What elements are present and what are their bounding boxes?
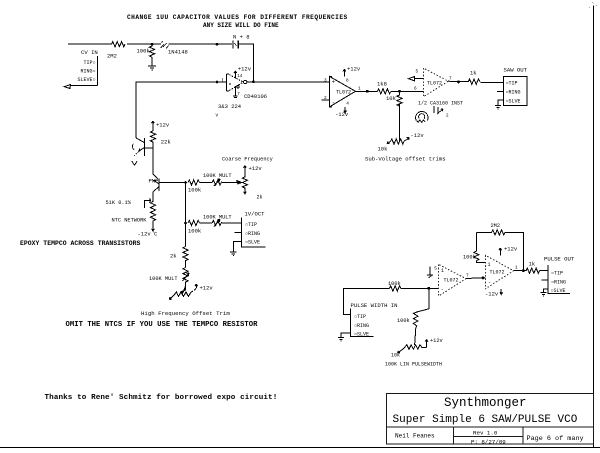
resistor R10 2k (183, 247, 188, 263)
resistor R4 10k offset (397, 91, 402, 106)
wire Q2 base to summing node (159, 182, 186, 184)
svg-text:100k: 100k (397, 318, 410, 324)
wire summing node down to 1V/OCT chain (185, 183, 187, 247)
svg-text:-12v: -12v (411, 132, 425, 139)
ground at J4 sleeve (338, 338, 344, 342)
resistor R6 22k (150, 127, 155, 144)
svg-text:CHANGE 1UU CAPACITOR VALUES FO: CHANGE 1UU CAPACITOR VALUES FOR DIFFEREN… (127, 14, 348, 21)
svg-text:100K MULT: 100K MULT (203, 173, 232, 179)
wire NPN collector to U1 input (136, 82, 227, 138)
wire from CV IN to R1 (68, 43, 112, 45)
wire R4 to trimmer RV1 (399, 104, 401, 142)
svg-text:7: 7 (449, 77, 452, 82)
U1 supply pin 14 +12v (234, 66, 252, 80)
svg-text:○RING: ○RING (551, 279, 566, 285)
resistor R5 1k saw out (468, 79, 480, 84)
node junction on saw out line (457, 81, 460, 84)
transistor Q2 PNP (149, 177, 159, 196)
connector J3 1V/OCT jack (242, 211, 266, 248)
svg-text:-: - (488, 280, 491, 286)
svg-text:○SLVE: ○SLVE (245, 240, 260, 246)
J5 sleeve wire to ground (544, 289, 548, 293)
svg-text:2M2: 2M2 (491, 223, 501, 229)
node junction at U4 -input (427, 287, 430, 290)
svg-text:CD40106: CD40106 (244, 93, 267, 100)
svg-text:ANY SIZE WILL DO FINE: ANY SIZE WILL DO FINE (203, 22, 279, 29)
svg-text:-12v: -12v (335, 111, 349, 118)
svg-text:6: 6 (414, 87, 417, 92)
svg-text:○RING: ○RING (245, 231, 260, 237)
resistor R7 NTC/tempco (150, 196, 155, 226)
svg-text:○TIP: ○TIP (354, 314, 366, 320)
+12v supply arrow above R6 (152, 121, 155, 127)
node junction on saw line (366, 90, 369, 93)
node junction at R2 top (151, 43, 154, 46)
svg-text:+12v: +12v (238, 66, 252, 73)
wire R5 to SAW OUT jack (480, 82, 503, 84)
U2 -12v supply pin 4 (335, 102, 349, 119)
J2 ring stub (497, 90, 504, 92)
svg-text:Synthmonger: Synthmonger (444, 396, 527, 410)
svg-text:2k: 2k (170, 253, 177, 260)
svg-text:4: 4 (346, 102, 349, 107)
svg-text:-: - (441, 287, 444, 293)
svg-text:TL072: TL072 (427, 81, 442, 87)
node junction at offset trim branch (398, 90, 401, 93)
svg-text:100k: 100k (388, 281, 401, 287)
svg-text:○SLVE: ○SLVE (506, 98, 521, 104)
svg-text:100k: 100k (188, 228, 202, 235)
wire Q1 base to Q2 base (145, 148, 158, 179)
svg-text:+12v: +12v (504, 246, 518, 253)
svg-text:○TIP: ○TIP (551, 271, 563, 277)
svg-text:○RING: ○RING (506, 90, 521, 96)
trimmer arcs below U3 (416, 111, 428, 120)
svg-text:○TIP: ○TIP (506, 81, 518, 87)
trimmer RV3 100K MULT (212, 220, 222, 227)
svg-text:PULSE OUT: PULSE OUT (544, 256, 575, 263)
svg-text:1: 1 (358, 87, 361, 92)
wire R9 to RV3 (200, 222, 213, 224)
resistor R1 2M2 (112, 42, 125, 47)
svg-text:5: 5 (416, 70, 419, 75)
resistor R8 100k (188, 180, 199, 185)
resistor R2 100k to ground (149, 44, 154, 60)
wire U1 output to U2 +input (247, 81, 330, 83)
node junction at U5 -input (482, 277, 485, 280)
ground at U4 +input (427, 267, 433, 278)
svg-text:SLEVE○: SLEVE○ (77, 77, 95, 83)
svg-text:N + 8: N + 8 (233, 34, 250, 41)
wire R3 to U3 -input (391, 90, 424, 92)
ground at J3 sleeve (230, 252, 236, 256)
pot VR1 coarse frequency (236, 165, 263, 201)
svg-text:○RING: ○RING (354, 323, 369, 329)
svg-text:High Frequency Offset Trim: High Frequency Offset Trim (141, 310, 230, 317)
svg-text:○SLVE: ○SLVE (354, 332, 369, 338)
svg-text:Page 6 of many: Page 6 of many (527, 435, 584, 443)
svg-text:V: V (216, 113, 219, 119)
wire U3 output to R5 (448, 80, 468, 83)
resistor R15 1k pulse out (526, 268, 540, 273)
port arrow at J1 sleeve (64, 85, 75, 89)
svg-text:1: 1 (441, 268, 444, 274)
port arrow at U3 +input (409, 77, 424, 81)
op-amp U2 TL072 saw buffer (324, 77, 361, 107)
trimmer RV4 100K MULT high freq (183, 268, 190, 287)
resistor R9 100k (1V/OCT input) (188, 220, 199, 225)
resistor R11 100k pw input (389, 286, 401, 291)
node junction at feedback tap (522, 269, 525, 272)
wire node down to R12 (417, 288, 429, 312)
svg-text:10k: 10k (378, 146, 389, 153)
wire RV3 to 1V/OCT jack tip (222, 222, 241, 224)
svg-text:1k8: 1k8 (377, 81, 387, 88)
sheet border bottom edge (0, 447, 600, 449)
NTC bracket wiper (144, 198, 150, 208)
svg-text:TL072: TL072 (490, 270, 505, 276)
pot VR3 100K LIN pulsewidth (391, 338, 443, 359)
svg-text:7: 7 (466, 274, 469, 279)
wire R1 to node (127, 43, 161, 45)
svg-text:Rev 1.0: Rev 1.0 (473, 430, 498, 437)
feedback resistor R13 100k to U5 +input (474, 232, 486, 262)
J4 tip wire up to comparator line (344, 289, 390, 315)
wire R6 to base node (152, 144, 154, 148)
svg-text:100K MULT: 100K MULT (203, 215, 232, 221)
resistor R3 1k8 (377, 89, 391, 94)
wire U5 output to R15 (514, 270, 526, 272)
J3 ring stub (235, 231, 242, 233)
svg-text:P: 8/27/09: P: 8/27/09 (471, 439, 506, 446)
svg-text:SAW OUT: SAW OUT (504, 67, 528, 74)
node junction above U1 input (216, 43, 219, 46)
svg-text:-: - (332, 98, 335, 105)
resistor R12 100k to pw pot (413, 312, 418, 345)
svg-text:+12v: +12v (156, 122, 170, 129)
wire R15 to PULSE OUT jack (540, 270, 548, 272)
svg-text:100K LIN PULSEWIDTH: 100K LIN PULSEWIDTH (385, 362, 442, 368)
svg-text:Sub-Voltage offset trims: Sub-Voltage offset trims (365, 156, 446, 163)
compensation cap marks (434, 106, 443, 114)
J3 sleeve wire to ground (233, 242, 241, 253)
U5 +12v supply (499, 246, 518, 256)
sheet border top-right tick (589, 2, 597, 8)
wire R8 to RV2 (200, 182, 213, 184)
diode D1 1N4148 (161, 41, 169, 48)
ground below R2 (148, 58, 156, 70)
title block (387, 394, 594, 445)
svg-text:10k: 10k (386, 95, 397, 102)
wire R10 to RV4 (185, 261, 187, 268)
connector J1 CV IN jack (76, 49, 98, 86)
svg-text:3: 3 (324, 79, 327, 84)
svg-text:RING○: RING○ (80, 69, 95, 75)
J2 sleeve wire to ground (498, 100, 504, 105)
U5 -12v supply (485, 289, 503, 298)
svg-text:14: 14 (237, 75, 243, 79)
svg-text:1V/OCT: 1V/OCT (244, 211, 265, 218)
feedback resistor R14 2M2 (477, 230, 524, 271)
wire D1 to C1 (169, 43, 233, 45)
svg-text:2k: 2k (257, 195, 263, 201)
pot VR2 high frequency offset (169, 284, 213, 300)
node junction at 1V/OCT chain (184, 222, 187, 225)
ground at J2 sleeve (495, 106, 501, 110)
svg-text:1: 1 (488, 262, 491, 268)
U1 ground pin 7 (233, 86, 240, 98)
svg-text:10k: 10k (391, 353, 400, 359)
svg-text:Coarse Frequency: Coarse Frequency (222, 157, 273, 163)
svg-text:5: 5 (434, 267, 437, 272)
svg-text:TL072: TL072 (336, 90, 351, 96)
svg-text:1/2 CA3160 INST: 1/2 CA3160 INST (418, 101, 463, 107)
wire RV2 to coarse pot wiper (222, 181, 236, 183)
wire C1 to U1 output node (239, 44, 254, 81)
capacitor C1 (233, 40, 238, 48)
wire U2 output to R3 (356, 90, 378, 92)
U2 -input stub (321, 99, 329, 101)
svg-text:1k: 1k (529, 261, 536, 268)
node junction at CV summing (184, 181, 187, 184)
svg-text:22k: 22k (161, 139, 172, 146)
svg-text:8: 8 (346, 79, 349, 84)
svg-text:100k: 100k (463, 255, 476, 261)
ground at J5 sleeve (540, 293, 546, 297)
svg-text:PNP: PNP (149, 177, 159, 184)
svg-text:PULSE WIDTH IN: PULSE WIDTH IN (351, 302, 398, 309)
svg-text:EPOXY TEMPCO ACROSS TRANSISTOR: EPOXY TEMPCO ACROSS TRANSISTORS (20, 240, 141, 247)
sheet border right edge (593, 6, 595, 448)
note: change capacitor values (127, 14, 348, 29)
svg-text:51K 0.1%: 51K 0.1% (106, 200, 132, 206)
inverter U1 CD40106 schmitt trigger (227, 74, 247, 91)
svg-text:100K MULT: 100K MULT (149, 276, 178, 282)
svg-text:+: + (332, 79, 335, 86)
svg-text:-12v C: -12v C (138, 231, 159, 238)
svg-text:CV IN: CV IN (81, 49, 98, 56)
svg-text:1N4148: 1N4148 (168, 49, 188, 56)
svg-text:+12v: +12v (249, 165, 263, 172)
op-amp U3 CA3160 (dotted) (424, 68, 449, 97)
svg-text:-12v: -12v (485, 291, 499, 298)
svg-text:+12v: +12v (200, 285, 214, 292)
J5 ring stub (542, 279, 548, 281)
svg-text:2M2: 2M2 (107, 53, 117, 60)
wire R11 to U4 -input (401, 287, 439, 290)
op-amp U5 TL072 (dotted) (485, 255, 513, 289)
svg-text:+12v: +12v (347, 66, 361, 73)
connector J2 SAW OUT jack (504, 67, 528, 106)
svg-text:3&3 224: 3&3 224 (218, 103, 242, 110)
node junction at U1 input (216, 81, 219, 84)
svg-text:OMIT THE NTCS IF YOU USE THE T: OMIT THE NTCS IF YOU USE THE TEMPCO RESI… (66, 321, 259, 329)
svg-text:100k: 100k (188, 187, 202, 194)
connector J5 PULSE OUT jack (544, 256, 575, 295)
svg-text:Super Simple 6 SAW/PULSE VCO: Super Simple 6 SAW/PULSE VCO (393, 414, 578, 426)
svg-text:100k: 100k (137, 48, 151, 55)
svg-text:Neil Feanes: Neil Feanes (395, 433, 435, 440)
svg-text:○TIP: ○TIP (245, 222, 257, 228)
svg-text:Thanks to Rene' Schmitz for bo: Thanks to Rene' Schmitz for borrowed exp… (45, 394, 278, 402)
U2 +12v supply pin 8 (343, 66, 361, 84)
transistor Q1 NPN (132, 138, 145, 165)
svg-text:1k: 1k (470, 70, 477, 77)
svg-text:○SLVE: ○SLVE (551, 288, 566, 294)
op-amp U4 TL072 comparator (dotted) (439, 264, 466, 296)
svg-text:TIP○: TIP○ (83, 60, 95, 66)
svg-text:1: 1 (515, 266, 518, 271)
connector J4 PULSE WIDTH IN jack (351, 302, 398, 338)
-12v arrow below R7 (152, 226, 155, 231)
node junction at cap feedback (252, 80, 255, 83)
svg-text:TL072: TL072 (444, 278, 459, 284)
trimmer RV2 100K MULT (212, 179, 222, 186)
svg-text:+12v: +12v (430, 338, 443, 344)
svg-text:NTC NETWORK: NTC NETWORK (112, 218, 148, 224)
trimmer RV1 10k saw offset (378, 132, 425, 153)
pin 1 tick at U1 input (221, 78, 223, 82)
wire U4 output to U5 -input (466, 277, 485, 280)
J4 sleeve wire to ground (341, 333, 351, 338)
